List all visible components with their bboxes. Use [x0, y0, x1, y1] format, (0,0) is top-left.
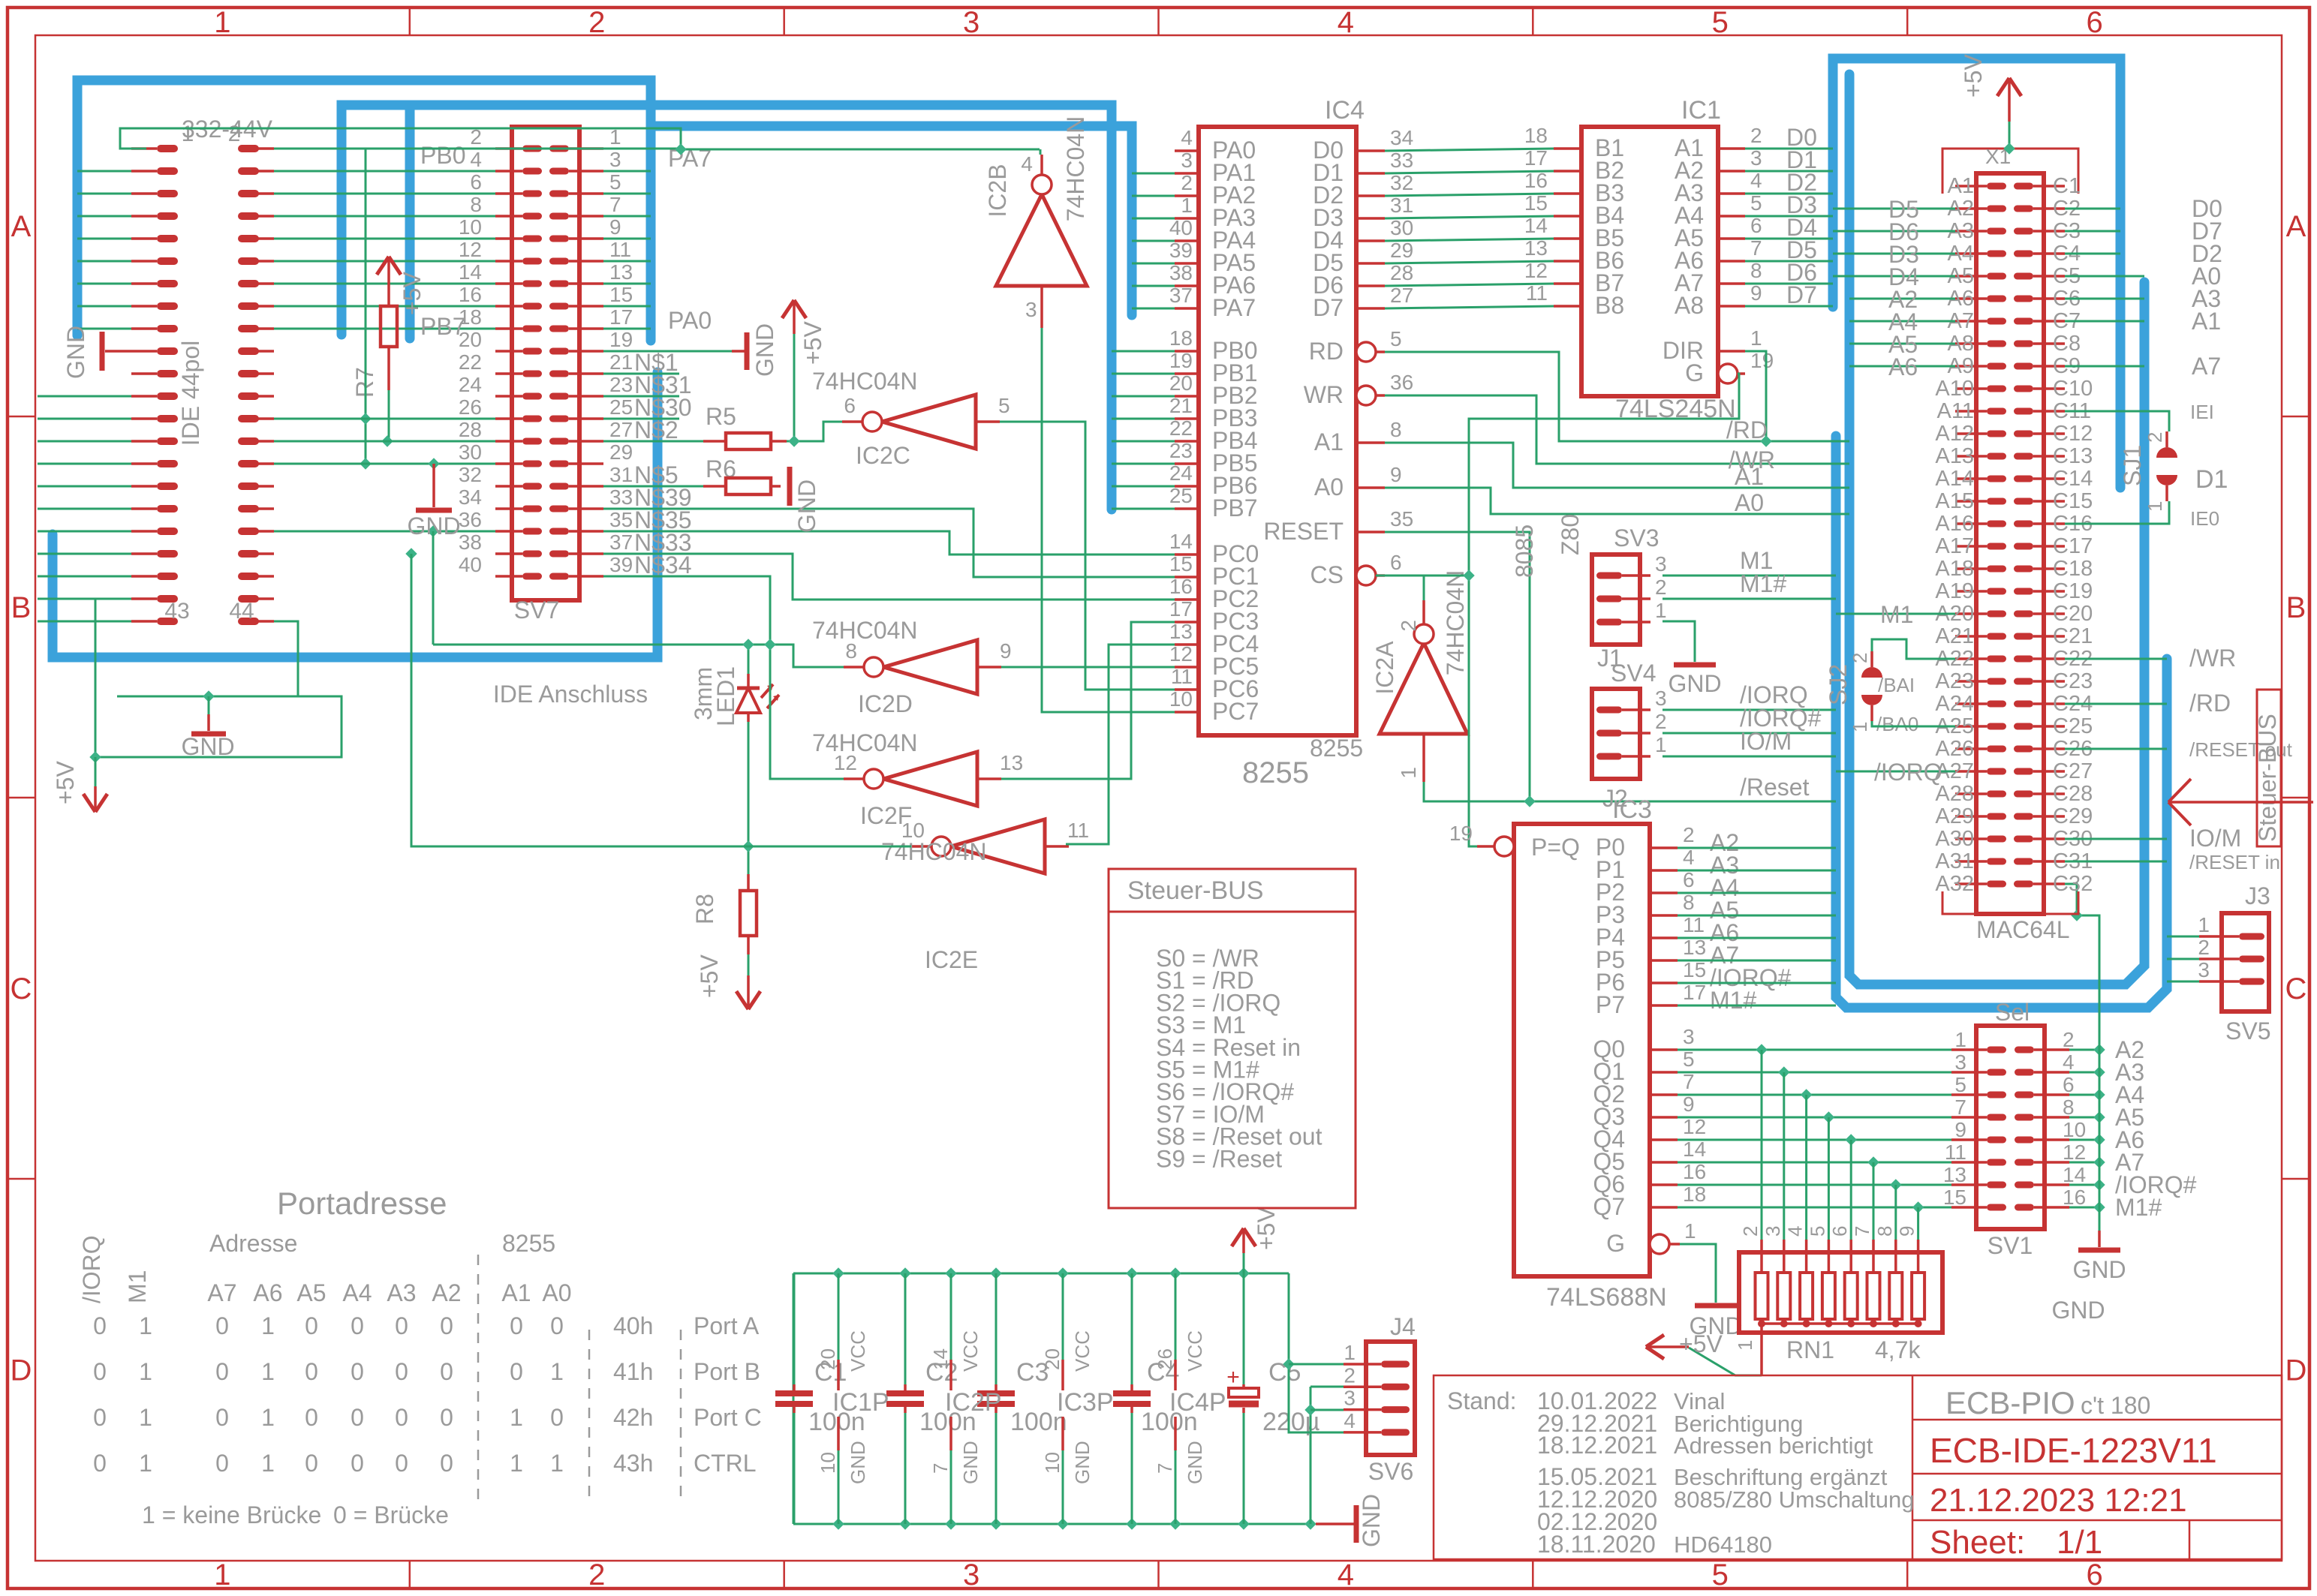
svg-text:30: 30	[459, 440, 482, 464]
wire IC2C input to PC6	[1000, 422, 1175, 690]
svg-text:/Reset: /Reset	[1740, 774, 1810, 801]
power +5V at R8	[696, 954, 760, 1009]
power +5V bottom left	[52, 757, 107, 812]
svg-text:/BAI: /BAI	[1878, 674, 1915, 696]
svg-text:44: 44	[229, 599, 254, 624]
svg-text:7: 7	[1954, 1096, 1966, 1119]
svg-text:SV1: SV1	[1988, 1232, 2033, 1259]
svg-text:4: 4	[2063, 1050, 2075, 1074]
svg-text:8255: 8255	[1310, 735, 1363, 762]
svg-text:1: 1	[214, 6, 230, 39]
connector SV1 Sel	[1943, 999, 2086, 1259]
svg-text:C: C	[11, 972, 32, 1005]
svg-text:3: 3	[2198, 958, 2210, 981]
svg-text:22: 22	[459, 350, 482, 374]
wire X1 right data rows	[2065, 195, 2222, 380]
svg-text:74HC04N: 74HC04N	[812, 729, 918, 756]
svg-text:M1: M1	[124, 1270, 151, 1303]
svg-text:40: 40	[1169, 216, 1193, 239]
wire R5 to IC2C output	[787, 422, 842, 447]
wire IC3 Q rows to SV1	[1678, 1044, 1951, 1213]
svg-text:19: 19	[1750, 349, 1774, 372]
svg-text:Port C: Port C	[694, 1404, 762, 1431]
svg-text:10: 10	[1041, 1452, 1064, 1474]
svg-text:40: 40	[459, 553, 482, 576]
svg-text:A26: A26	[1935, 737, 1974, 761]
svg-text:3: 3	[609, 148, 621, 171]
svg-text:N$34: N$34	[634, 552, 692, 579]
svg-text:A: A	[2286, 210, 2306, 243]
ic IC1 74LS245N	[1524, 96, 1774, 423]
svg-text:1: 1	[139, 1404, 152, 1431]
svg-text:4: 4	[1750, 169, 1762, 192]
svg-text:Port A: Port A	[694, 1312, 760, 1339]
bus control around X1	[1836, 436, 2167, 1008]
svg-text:/IORQ: /IORQ	[1874, 759, 1942, 786]
svg-text:4: 4	[1021, 152, 1033, 176]
wire SV1 right GND chain	[2069, 1036, 2197, 1221]
svg-text:IO/M: IO/M	[2189, 825, 2241, 852]
svg-text:0: 0	[510, 1312, 523, 1339]
svg-text:CTRL: CTRL	[694, 1450, 757, 1477]
svg-text:PB7: PB7	[1212, 494, 1257, 521]
svg-text:41h: 41h	[613, 1358, 653, 1385]
svg-text:28: 28	[459, 418, 482, 441]
svg-text:Stand:: Stand:	[1447, 1387, 1517, 1414]
svg-text:P=Q: P=Q	[1531, 834, 1580, 861]
wire SV7 right pins to PA bus	[603, 171, 651, 329]
svg-text:17: 17	[609, 305, 633, 329]
svg-text:C21: C21	[2053, 624, 2093, 648]
svg-text:6: 6	[2063, 1073, 2075, 1096]
resistor R7	[351, 306, 397, 398]
power +5V at R7	[377, 257, 426, 315]
svg-text:D1: D1	[2195, 465, 2228, 494]
svg-text:G: G	[1685, 359, 1704, 386]
ground GND at R6	[790, 467, 820, 533]
svg-text:0: 0	[93, 1450, 107, 1477]
svg-text:1: 1	[1684, 1219, 1696, 1243]
svg-text:12: 12	[1169, 642, 1193, 666]
svg-text:GND: GND	[751, 323, 778, 377]
svg-text:15: 15	[1943, 1186, 1966, 1209]
svg-text:8085/Z80 Umschaltung: 8085/Z80 Umschaltung	[1674, 1486, 1915, 1513]
svg-text:1: 1	[214, 1558, 230, 1591]
svg-text:33: 33	[609, 485, 633, 509]
svg-text:5: 5	[609, 170, 621, 194]
svg-text:IC1P: IC1P	[832, 1388, 889, 1417]
svg-text:11: 11	[1945, 1141, 1966, 1164]
svg-text:7: 7	[1683, 1070, 1695, 1093]
svg-text:C1: C1	[2053, 174, 2081, 198]
svg-text:20: 20	[817, 1348, 839, 1370]
svg-text:0: 0	[395, 1450, 408, 1477]
svg-text:5: 5	[998, 394, 1010, 417]
svg-text:Steuer-BUS: Steuer-BUS	[2254, 714, 2281, 842]
svg-text:14: 14	[929, 1348, 952, 1370]
svg-text:2: 2	[1750, 124, 1762, 147]
svg-text:13: 13	[1000, 751, 1023, 774]
svg-text:VCC: VCC	[847, 1330, 869, 1372]
svg-text:25: 25	[609, 395, 633, 419]
svg-text:16: 16	[1169, 575, 1193, 598]
svg-text:1: 1	[1750, 326, 1762, 350]
svg-text:Steuer-BUS: Steuer-BUS	[1127, 876, 1263, 905]
svg-text:SV6: SV6	[1368, 1458, 1413, 1485]
svg-text:18: 18	[1524, 124, 1548, 147]
svg-text:38: 38	[459, 530, 482, 554]
power pins IC1P	[817, 1273, 889, 1524]
svg-text:18: 18	[1169, 326, 1193, 350]
svg-text:IDE 44pol: IDE 44pol	[177, 341, 204, 446]
svg-text:31: 31	[1390, 194, 1413, 217]
svg-text:8: 8	[470, 193, 482, 216]
svg-text:A5: A5	[296, 1279, 326, 1306]
svg-text:39: 39	[609, 553, 633, 576]
svg-text:24: 24	[459, 373, 482, 396]
wire IC2D output to PC5	[1001, 666, 1175, 669]
connector J3 SV5	[2167, 882, 2270, 1044]
svg-text:7: 7	[1154, 1463, 1176, 1474]
wire IC2B pin4 up	[1040, 149, 1042, 155]
wire IC2E input net	[405, 548, 911, 846]
svg-text:3: 3	[1344, 1387, 1356, 1410]
svg-text:5: 5	[1750, 191, 1762, 215]
connector 332-44V IDE 44pol	[131, 116, 274, 625]
svg-text:C8: C8	[2053, 332, 2081, 356]
svg-text:A7: A7	[2192, 353, 2221, 380]
svg-text:2: 2	[588, 6, 605, 39]
svg-text:A15: A15	[1935, 489, 1974, 513]
svg-text:34: 34	[1390, 126, 1413, 149]
svg-text:Adresse: Adresse	[209, 1230, 297, 1257]
svg-text:4,7k: 4,7k	[1875, 1336, 1921, 1363]
svg-text:A1: A1	[1735, 463, 1764, 490]
power +5V at X1	[1960, 54, 2021, 155]
bus lower IDE loop	[53, 372, 657, 657]
svg-text:IC4P: IC4P	[1169, 1388, 1226, 1417]
svg-text:A8: A8	[1675, 292, 1704, 319]
svg-text:SJ2: SJ2	[1825, 664, 1852, 705]
svg-text:MAC64L: MAC64L	[1976, 916, 2070, 943]
svg-text:42h: 42h	[613, 1404, 653, 1431]
svg-text:WR: WR	[1304, 381, 1344, 408]
wire IDE pin1 top net to PA0	[120, 128, 1040, 155]
svg-text:C17: C17	[2053, 534, 2093, 558]
svg-text:10: 10	[2063, 1118, 2086, 1141]
ground GND at IDE pin3	[62, 326, 131, 379]
svg-text:29: 29	[609, 440, 633, 464]
svg-text:PB0: PB0	[420, 142, 465, 169]
svg-text:0: 0	[395, 1404, 408, 1431]
svg-text:A13: A13	[1935, 444, 1974, 468]
svg-text:A7: A7	[207, 1279, 236, 1306]
svg-text:1/1: 1/1	[2057, 1524, 2102, 1561]
svg-text:9: 9	[1683, 1093, 1695, 1116]
svg-text:18: 18	[1683, 1183, 1706, 1206]
svg-text:36: 36	[1390, 371, 1413, 394]
svg-text:4: 4	[1683, 846, 1695, 869]
svg-text:0: 0	[550, 1312, 564, 1339]
svg-text:15: 15	[609, 283, 633, 306]
jumper SJ1	[2119, 431, 2228, 512]
svg-text:0: 0	[440, 1404, 453, 1431]
svg-text:GND: GND	[793, 479, 820, 533]
svg-text:GND: GND	[847, 1441, 869, 1484]
svg-text:GND: GND	[1071, 1441, 1094, 1484]
svg-text:33: 33	[1390, 149, 1413, 172]
svg-text:0: 0	[351, 1312, 364, 1339]
svg-text:M1#: M1#	[1710, 987, 1756, 1014]
svg-text:GND: GND	[1668, 670, 1721, 697]
bus data D0-D7 right	[1833, 59, 2120, 488]
svg-text:IDE Anschluss: IDE Anschluss	[493, 681, 648, 708]
svg-text:32: 32	[459, 463, 482, 486]
wire X1 C32 to GND	[2057, 884, 2099, 1231]
svg-text:J3: J3	[2245, 882, 2270, 909]
svg-text:3: 3	[1762, 1226, 1784, 1237]
svg-text:16: 16	[2063, 1186, 2086, 1209]
svg-text:4: 4	[1338, 6, 1354, 39]
wire Vcc rail	[793, 1267, 1289, 1524]
svg-text:38: 38	[1169, 261, 1193, 284]
svg-text:0: 0	[305, 1358, 318, 1385]
svg-text:0: 0	[305, 1312, 318, 1339]
wire IC1 A to data bus	[1745, 124, 1833, 308]
inverter IC2A 74HC04N	[1371, 570, 1469, 782]
arrow Steuer-BUS	[2168, 779, 2313, 825]
svg-text:4: 4	[1784, 1226, 1807, 1237]
svg-text:0: 0	[351, 1450, 364, 1477]
jumper SJ2	[1825, 651, 1918, 735]
svg-text:34: 34	[459, 485, 482, 509]
svg-text:6: 6	[1828, 1226, 1851, 1237]
svg-text:8: 8	[2063, 1096, 2075, 1119]
svg-text:A21: A21	[1935, 624, 1974, 648]
svg-text:GND: GND	[2051, 1297, 2105, 1324]
svg-text:1: 1	[510, 1404, 523, 1431]
svg-text:13: 13	[1943, 1163, 1966, 1186]
svg-text:IC1: IC1	[1681, 96, 1721, 125]
svg-text:G: G	[1606, 1230, 1625, 1257]
wire net M1 at X1	[1836, 601, 1955, 628]
wire SV7 N$ rows	[603, 374, 1175, 645]
power +5V at R5	[782, 300, 826, 441]
label table Portadresse	[78, 1186, 762, 1528]
svg-text:1: 1	[1655, 733, 1667, 756]
svg-text:+5V: +5V	[1960, 54, 1987, 98]
wire net /IORQ at X1	[1836, 759, 1955, 786]
inverter IC2B 74HC04N	[984, 116, 1089, 328]
svg-text:9: 9	[1000, 639, 1012, 663]
svg-text:3: 3	[1025, 298, 1037, 321]
label PB0 PB7 PA7 PA0	[420, 142, 712, 340]
svg-text:+5V: +5V	[1253, 1207, 1280, 1250]
svg-text:1: 1	[2198, 913, 2210, 936]
svg-text:4: 4	[1344, 1409, 1356, 1432]
svg-text:26: 26	[459, 395, 482, 419]
svg-text:1: 1	[1734, 1340, 1756, 1351]
power +5V at rail	[1232, 1207, 1280, 1273]
bus left IDE loop	[77, 80, 651, 341]
wire net RESET	[1385, 532, 1836, 807]
svg-text:Port B: Port B	[694, 1358, 760, 1385]
svg-text:1: 1	[1344, 1341, 1356, 1364]
svg-text:0: 0	[440, 1312, 453, 1339]
capacitor C4 100n	[1113, 1273, 1198, 1524]
connector SV3 J1	[1511, 514, 1667, 672]
svg-text:A: A	[11, 210, 32, 243]
svg-text:14: 14	[2063, 1163, 2086, 1186]
svg-text:ECB-PIO: ECB-PIO	[1945, 1385, 2075, 1420]
svg-text:VCC: VCC	[1071, 1330, 1094, 1372]
wire net M1 M1#	[1663, 547, 1836, 599]
svg-text:11: 11	[1683, 913, 1705, 936]
svg-text:3: 3	[1655, 687, 1667, 710]
bus stub at R7	[405, 110, 415, 338]
svg-text:74HC04N: 74HC04N	[1442, 570, 1469, 676]
wire IC2A input	[1423, 576, 1425, 600]
svg-text:A12: A12	[1935, 422, 1974, 446]
svg-text:0: 0	[93, 1404, 107, 1431]
bus PB to 8255	[342, 105, 1112, 509]
svg-text:IC3P: IC3P	[1057, 1388, 1114, 1417]
capacitor C1 100n	[775, 1273, 865, 1524]
svg-text:+5V: +5V	[696, 954, 723, 998]
svg-text:C18: C18	[2053, 557, 2093, 581]
wire R7 net	[274, 149, 495, 537]
svg-text:2: 2	[1397, 620, 1420, 632]
svg-text:A6: A6	[1888, 353, 1918, 380]
svg-text:18.12.2021: 18.12.2021	[1537, 1432, 1657, 1459]
svg-text:GND: GND	[181, 733, 234, 760]
svg-text:5: 5	[1954, 1073, 1966, 1096]
svg-text:74HC04N: 74HC04N	[812, 617, 918, 644]
svg-text:27: 27	[609, 418, 633, 441]
inverter IC2E 74HC04N	[881, 819, 1089, 973]
svg-text:10: 10	[817, 1452, 839, 1474]
svg-text:1: 1	[261, 1450, 275, 1477]
svg-text:5: 5	[1712, 1558, 1729, 1591]
svg-text:16: 16	[459, 283, 482, 306]
svg-text:6: 6	[1683, 868, 1695, 891]
wire net CS select	[1376, 374, 1739, 846]
wire net /RD	[1385, 351, 1849, 447]
svg-text:A17: A17	[1935, 534, 1974, 558]
svg-text:A16: A16	[1935, 512, 1974, 536]
ground GND at J4	[1316, 1494, 1385, 1547]
svg-text:VCC: VCC	[1184, 1330, 1206, 1372]
svg-text:P7: P7	[1596, 991, 1625, 1018]
svg-text:43: 43	[164, 599, 189, 624]
svg-text:6: 6	[2086, 6, 2102, 39]
svg-text:12: 12	[1683, 1115, 1706, 1138]
svg-text:1: 1	[1655, 599, 1667, 622]
svg-text:0: 0	[440, 1358, 453, 1385]
ground GND at SV7 pin19	[603, 323, 778, 377]
svg-text:IC2E: IC2E	[925, 946, 978, 973]
svg-text:1 = keine Brücke: 1 = keine Brücke	[142, 1501, 321, 1528]
svg-text:M1: M1	[1880, 601, 1913, 628]
svg-text:7: 7	[1851, 1226, 1873, 1237]
svg-text:IC3: IC3	[1612, 795, 1652, 824]
inverter IC2C 74HC04N	[812, 368, 1010, 469]
svg-text:GND: GND	[1358, 1494, 1385, 1547]
svg-text:13: 13	[1683, 936, 1706, 959]
label box Steuer-BUS	[2254, 690, 2281, 846]
svg-text:1: 1	[550, 1358, 564, 1385]
svg-text:SJ1: SJ1	[2119, 445, 2146, 486]
wire IEI IE0	[2065, 401, 2219, 530]
svg-text:0: 0	[215, 1312, 229, 1339]
capacitor C2 100n	[886, 1273, 976, 1524]
wire GND rail	[793, 1518, 1316, 1529]
svg-text:M1#: M1#	[2115, 1194, 2162, 1221]
svg-text:GND: GND	[1184, 1441, 1206, 1484]
bus branch PA to 8255	[651, 126, 1132, 315]
svg-text:C32: C32	[2053, 872, 2093, 896]
svg-text:D: D	[2285, 1354, 2307, 1387]
svg-text:9: 9	[1954, 1118, 1966, 1141]
svg-text:4: 4	[1181, 126, 1193, 149]
svg-text:B: B	[2286, 591, 2306, 624]
led LED1 3mm	[690, 666, 779, 726]
svg-text:A31: A31	[1935, 849, 1974, 873]
svg-text:8: 8	[1390, 418, 1402, 441]
svg-text:A1: A1	[2192, 308, 2221, 335]
svg-text:C19: C19	[2053, 579, 2093, 603]
svg-text:A1: A1	[501, 1279, 531, 1306]
svg-text:26: 26	[1154, 1348, 1176, 1370]
svg-text:8: 8	[1683, 891, 1695, 914]
svg-text:40h: 40h	[613, 1312, 653, 1339]
svg-text:19: 19	[1169, 349, 1193, 372]
svg-text:2: 2	[1344, 1363, 1356, 1387]
power +5V at RN1	[1646, 1330, 1762, 1375]
svg-text:5: 5	[1683, 1047, 1695, 1071]
wire X1 left data rows	[1833, 196, 1955, 380]
wire IC3 P rows to bus	[1678, 848, 1836, 1005]
svg-text:16: 16	[1683, 1160, 1706, 1183]
svg-text:Sheet:: Sheet:	[1930, 1524, 2025, 1561]
svg-text:5: 5	[1390, 327, 1402, 350]
wire IDE bottom pins 43 44	[89, 599, 342, 763]
svg-text:0: 0	[305, 1450, 318, 1477]
svg-text:2: 2	[1181, 171, 1193, 194]
svg-text:3: 3	[1181, 149, 1193, 172]
svg-text:21.12.2023 12:21: 21.12.2023 12:21	[1930, 1482, 2187, 1519]
power pins IC3P	[1041, 1273, 1114, 1524]
svg-text:1: 1	[510, 1450, 523, 1477]
svg-text:35: 35	[1390, 507, 1413, 530]
svg-text:1: 1	[139, 1450, 152, 1477]
svg-text:8255: 8255	[502, 1230, 555, 1257]
svg-text:2: 2	[1655, 576, 1667, 599]
svg-text:10: 10	[1169, 687, 1193, 711]
svg-text:8085: 8085	[1511, 524, 1538, 578]
svg-text:0: 0	[215, 1450, 229, 1477]
svg-text:IC2C: IC2C	[856, 442, 910, 469]
ground GND at SV3	[1663, 621, 1722, 697]
svg-text:1: 1	[1954, 1028, 1966, 1051]
svg-text:1: 1	[1849, 722, 1871, 732]
label box Steuer-BUS legend	[1109, 869, 1356, 1208]
wire IC2F output to PC3	[1001, 622, 1175, 779]
svg-text:C27: C27	[2053, 759, 2093, 783]
svg-text:24: 24	[1169, 461, 1193, 485]
svg-text:39: 39	[1169, 239, 1193, 262]
svg-text:/BA0: /BA0	[1876, 713, 1918, 735]
